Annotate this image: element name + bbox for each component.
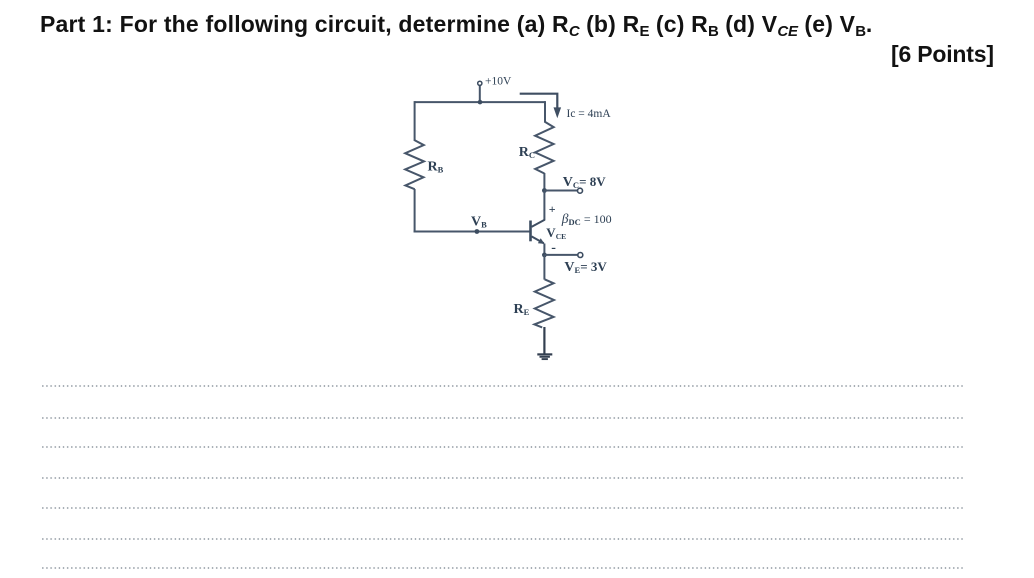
answer line 3 xyxy=(42,446,963,448)
svg-text:+10V: +10V xyxy=(485,76,512,88)
svg-text:Ic = 4mA: Ic = 4mA xyxy=(567,108,612,120)
label VCE plus-minus xyxy=(546,202,566,256)
wire top rail xyxy=(415,101,545,103)
resistor RE xyxy=(514,279,555,327)
svg-text:RE: RE xyxy=(514,302,530,317)
node VC xyxy=(542,174,606,193)
answer line 5 xyxy=(42,507,963,509)
answer line 6 xyxy=(42,538,963,540)
resistor RB xyxy=(405,140,443,189)
svg-text:VB: VB xyxy=(471,215,487,230)
transistor Q1 xyxy=(531,220,545,244)
svg-text:RB: RB xyxy=(428,159,444,174)
svg-text:VE= 3V: VE= 3V xyxy=(564,259,607,275)
wire right branch upper xyxy=(544,101,546,122)
wire to ground xyxy=(543,327,545,354)
wire left branch lower xyxy=(414,189,416,233)
svg-text:βDC = 100: βDC = 100 xyxy=(561,211,612,227)
wire emitter lower xyxy=(543,255,545,280)
node VB xyxy=(471,215,487,234)
wire collector upper xyxy=(543,173,545,191)
resistor RC xyxy=(519,122,554,174)
wire base xyxy=(414,231,530,233)
svg-text:-: - xyxy=(551,241,556,256)
svg-text:VCE: VCE xyxy=(546,225,566,241)
+10V supply terminal xyxy=(478,76,512,103)
current arrow Ic xyxy=(520,94,612,120)
node VE xyxy=(542,253,607,276)
node supply junction xyxy=(478,100,483,105)
answer line 7 xyxy=(42,567,963,569)
answer line 1 xyxy=(42,385,963,387)
svg-text:RC: RC xyxy=(519,145,535,160)
svg-text:+: + xyxy=(549,202,556,216)
svg-text:VC= 8V: VC= 8V xyxy=(563,174,606,190)
wire left branch upper xyxy=(414,101,416,141)
ground xyxy=(537,354,552,359)
label beta DC xyxy=(561,211,612,227)
wire collector lower xyxy=(543,191,545,221)
wire emitter upper xyxy=(543,244,545,256)
answer line 4 xyxy=(42,477,963,479)
answer line 2 xyxy=(42,417,963,419)
